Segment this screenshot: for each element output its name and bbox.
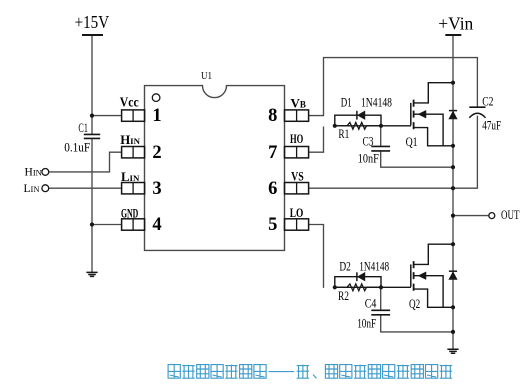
svg-text:Q1: Q1: [406, 135, 418, 149]
svg-text:0.1uF: 0.1uF: [64, 140, 90, 154]
svg-text:D1: D1: [341, 95, 352, 109]
svg-text:+15V: +15V: [75, 12, 110, 32]
svg-text:2: 2: [152, 143, 161, 163]
svg-text:HIN: HIN: [25, 167, 42, 179]
svg-text:1N4148: 1N4148: [359, 260, 389, 274]
svg-text:U1: U1: [201, 71, 212, 82]
svg-text:VS: VS: [291, 169, 304, 184]
svg-text:10nF: 10nF: [358, 152, 379, 166]
svg-text:47uF: 47uF: [482, 118, 501, 132]
svg-text:LIN: LIN: [121, 170, 140, 184]
svg-text:LIN: LIN: [24, 183, 40, 195]
svg-text:7: 7: [268, 143, 277, 163]
svg-text:6: 6: [268, 179, 277, 199]
svg-text:LO: LO: [290, 205, 304, 220]
svg-text:+Vin: +Vin: [438, 13, 473, 33]
svg-text:3: 3: [152, 179, 161, 199]
svg-text:5: 5: [268, 215, 277, 235]
svg-text:GND: GND: [121, 206, 138, 221]
svg-text:Q2: Q2: [409, 297, 420, 311]
svg-text:1: 1: [152, 106, 161, 126]
svg-text:C3: C3: [363, 134, 374, 148]
svg-text:R2: R2: [338, 289, 349, 303]
svg-text:Vcc: Vcc: [120, 94, 139, 109]
svg-text:C2: C2: [482, 95, 493, 109]
svg-text:8: 8: [268, 106, 277, 126]
svg-text:OUT: OUT: [501, 208, 520, 222]
svg-text:R1: R1: [338, 127, 349, 141]
svg-text:HIN: HIN: [120, 133, 140, 147]
svg-text:1N4148: 1N4148: [361, 95, 392, 109]
svg-text:C1: C1: [78, 121, 88, 135]
svg-text:4: 4: [152, 215, 161, 235]
svg-text:D2: D2: [339, 260, 351, 274]
svg-text:HO: HO: [290, 131, 303, 146]
svg-text:C4: C4: [365, 296, 377, 310]
svg-text:10nF: 10nF: [357, 317, 376, 331]
